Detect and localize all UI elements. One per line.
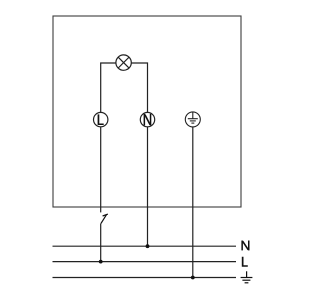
PE bus line [53,277,237,279]
switch S1 [101,214,108,224]
L bus line [53,261,237,263]
wire lamp loop L-to-N [101,63,148,113]
junction dot PE wire / PE bus [191,276,195,280]
junction dot N wire / N bus [146,244,150,248]
wire switch to L bus [100,224,102,262]
wire L terminal to switch [100,127,102,213]
wire N terminal to N bus [147,127,149,246]
label L [242,257,248,267]
terminal N [140,112,154,126]
device enclosure box [53,16,241,207]
lamp E1 (circle with cross) [116,55,131,70]
wire PE terminal to earth bus [192,127,194,278]
label N [241,241,249,251]
label earth symbol [241,271,253,283]
terminal PE (earth in circle) [185,112,200,127]
junction dot L wire / L bus [99,260,103,264]
N bus line [53,245,237,247]
terminal L [94,112,108,126]
